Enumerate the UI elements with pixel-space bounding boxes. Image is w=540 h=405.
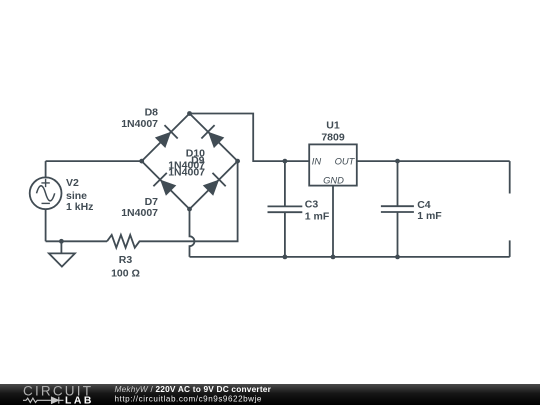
wire top-left rail V2 to bridge left node — [46, 160, 142, 162]
node C3 top — [283, 159, 288, 164]
svg-text:GND: GND — [323, 175, 344, 186]
node bridge right — [235, 159, 240, 164]
node C4 bottom — [395, 255, 400, 260]
wire V2 top stem — [45, 161, 47, 177]
footer bar — [0, 384, 540, 405]
svg-text:D9: D9 — [191, 154, 205, 166]
svg-text:LAB: LAB — [65, 395, 94, 405]
capacitor C4 — [381, 206, 414, 212]
svg-text:OUT: OUT — [335, 156, 356, 167]
resistor R3 — [107, 235, 143, 248]
diode D8 triangle — [155, 132, 171, 148]
wire bridge edge top-right — [190, 114, 238, 162]
diode D10 cathode bar — [201, 125, 214, 138]
svg-text:D7: D7 — [145, 196, 159, 208]
wire C3 bottom stem — [284, 212, 286, 257]
svg-text:V2: V2 — [66, 177, 79, 189]
svg-text:100 Ω: 100 Ω — [111, 268, 140, 280]
logo resistor-diode glyph — [23, 398, 51, 402]
wire U1 GND stem — [332, 186, 334, 257]
svg-text:U1: U1 — [326, 120, 340, 132]
diode D10 triangle — [208, 132, 224, 148]
node C4 top — [395, 159, 400, 164]
wire U1 OUT rail — [357, 160, 510, 162]
svg-text:C3: C3 — [305, 199, 319, 211]
ground stem — [60, 241, 62, 253]
wire bridge top node to U1 IN — [190, 114, 310, 162]
svg-text:1N4007: 1N4007 — [121, 118, 158, 130]
node bridge top — [187, 111, 192, 116]
diode D7 triangle — [160, 180, 176, 196]
wire bridge edge left-top — [142, 114, 190, 162]
wire bottom-left to R3 — [46, 240, 107, 242]
wire right terminal bottom — [509, 240, 511, 257]
svg-text:1 kHz: 1 kHz — [66, 201, 93, 213]
svg-text:MekhyW / 220V AC to 9V DC conv: MekhyW / 220V AC to 9V DC converter — [115, 384, 272, 394]
wire R3 to bridge right node riser — [143, 161, 238, 241]
svg-text:1 mF: 1 mF — [417, 210, 442, 222]
svg-text:7809: 7809 — [321, 131, 345, 143]
svg-text:C4: C4 — [417, 199, 431, 211]
svg-text:1N4007: 1N4007 — [121, 207, 158, 219]
node ground junction — [59, 239, 64, 244]
wire C3 top stem — [284, 161, 286, 206]
wire bottom rail — [190, 256, 510, 258]
wire bottom node stem with hop over — [190, 209, 195, 257]
wire right terminal top — [509, 161, 511, 193]
svg-text:R3: R3 — [119, 254, 133, 266]
V2 sine glyph — [37, 186, 55, 201]
wire C4 bottom stem — [397, 212, 399, 257]
wire bridge edge bottom-right — [190, 161, 238, 209]
voltage source V2 — [30, 177, 62, 209]
svg-text:IN: IN — [312, 156, 322, 167]
wire V2 bottom stem — [45, 209, 47, 241]
ground — [49, 253, 75, 266]
svg-text:1N4007: 1N4007 — [168, 167, 205, 179]
diode D8 cathode bar — [165, 125, 178, 138]
wire C4 top stem — [397, 161, 399, 206]
svg-text:D8: D8 — [145, 107, 159, 119]
diode D9 cathode bar — [213, 173, 226, 186]
V2 minus sign — [42, 202, 50, 204]
capacitor C3 — [268, 206, 303, 212]
V2 plus sign — [41, 179, 49, 187]
node U1 GND bottom — [331, 255, 336, 260]
diode D7 cathode bar — [153, 173, 166, 186]
svg-text:http://circuitlab.com/c9n9s962: http://circuitlab.com/c9n9s9622bwje — [115, 394, 262, 403]
op-amp U1 box — [309, 144, 357, 185]
node bridge left — [139, 159, 144, 164]
node bridge bottom — [187, 207, 192, 212]
wire bridge edge left-bottom — [142, 161, 190, 209]
diode D9 triangle — [203, 180, 219, 196]
node C3 bottom — [283, 255, 288, 260]
svg-text:1 mF: 1 mF — [305, 211, 330, 223]
